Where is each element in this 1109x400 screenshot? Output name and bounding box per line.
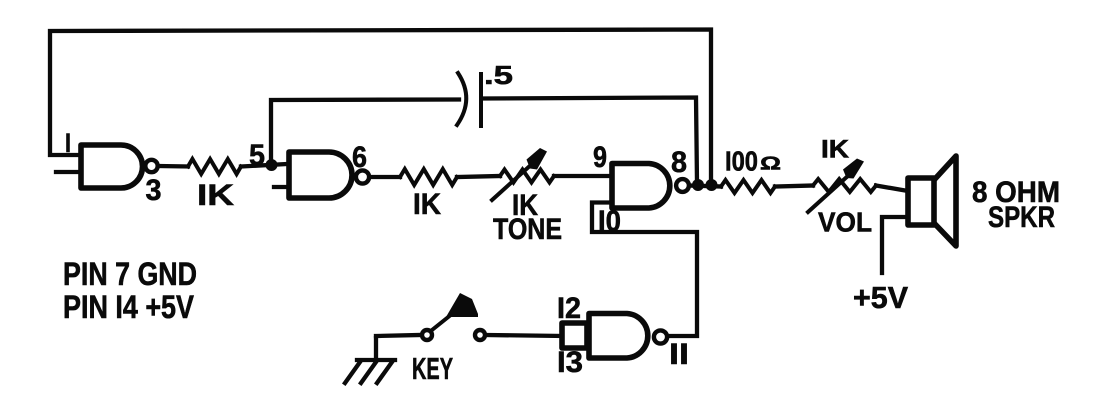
wire: R4 to R5: [775, 186, 813, 187]
gate U1a (pins 1,2,3) body: [81, 145, 143, 188]
switch S1 knob arrow: [446, 293, 478, 317]
potentiometer R5 1K VOL: [813, 179, 876, 192]
gate U1c (pins 9,10,8) body: [612, 164, 670, 209]
gate U1a output bubble: [145, 160, 157, 172]
node: pin 5 junction dot: [266, 159, 278, 171]
svg-text:IK: IK: [821, 136, 849, 164]
svg-text:5: 5: [249, 139, 265, 172]
svg-text:6: 6: [352, 141, 367, 174]
wire: U1b output to R2: [370, 175, 400, 179]
wire: top feedback rail from pin8 node to pin1: [50, 30, 711, 184]
wire: U1a output to R1: [159, 164, 188, 169]
wire: R3 to U1c input pin 9: [554, 174, 610, 178]
wire: capacitor rail from pin8 node to pin5: [482, 98, 697, 184]
svg-text:I3: I3: [557, 346, 583, 379]
pin 4 input stub: [274, 185, 289, 189]
wire: R1 to node 5 and U1b input: [241, 164, 287, 167]
svg-text:.5: .5: [484, 60, 513, 90]
pin 2 input stub: [56, 170, 81, 174]
potentiometer R5 wiper arrow: [808, 175, 849, 212]
capacitor C1 straight plate: [479, 74, 483, 126]
svg-text:IK: IK: [413, 188, 441, 221]
svg-text:II: II: [669, 338, 689, 371]
svg-text:VOL: VOL: [818, 207, 872, 238]
resistor R1 1K: [188, 159, 241, 174]
svg-text:PIN 7 GND: PIN 7 GND: [63, 256, 197, 292]
svg-text:TONE: TONE: [493, 213, 562, 246]
node: junction dot under capacitor rail: [692, 179, 704, 191]
wire: U1c output to node 8: [690, 186, 721, 187]
gate U1d input tie box (pins 12,13): [562, 323, 587, 348]
svg-text:9: 9: [593, 141, 607, 174]
wire: ground to key switch: [376, 335, 420, 336]
wire: R5 to speaker: [876, 186, 908, 192]
wire: R2 to R3: [457, 176, 500, 177]
svg-text:8: 8: [671, 146, 687, 179]
wire: switch to U1d input: [487, 335, 562, 336]
potentiometer R3 1K TONE: [500, 170, 554, 183]
svg-text:PIN I4 +5V: PIN I4 +5V: [63, 289, 195, 325]
svg-text:IK: IK: [197, 179, 234, 212]
svg-text:I2: I2: [557, 292, 581, 325]
gate U1c output bubble: [676, 179, 689, 192]
gate U1d (pins 12,13,11) body: [589, 314, 648, 359]
svg-text:Ω: Ω: [760, 154, 781, 174]
svg-text:SPKR: SPKR: [988, 201, 1055, 234]
svg-text:I: I: [65, 128, 71, 158]
node: junction dot under top rail: [706, 179, 718, 191]
speaker LS1 frame: [908, 178, 934, 225]
resistor R2 1K: [400, 169, 457, 185]
speaker LS1 cone: [934, 156, 956, 246]
wire: pin 10 to U1d output pin 11: [592, 203, 697, 337]
svg-text:+5V: +5V: [853, 280, 908, 315]
wire: capacitor rail left segment: [271, 100, 459, 164]
svg-text:3: 3: [146, 174, 162, 207]
svg-text:KEY: KEY: [412, 351, 453, 386]
switch S1 KEY right contact: [475, 330, 485, 340]
resistor R4 100 ohm: [721, 180, 775, 193]
gate U1b output bubble: [356, 170, 369, 183]
switch S1 lever: [432, 306, 462, 330]
switch S1 KEY left contact: [422, 330, 432, 340]
gate U1d output bubble: [654, 330, 667, 343]
gate U1b (pins 4,5,6) body: [289, 152, 352, 198]
svg-text:I00: I00: [725, 146, 758, 177]
potentiometer R3 wiper arrow: [492, 164, 532, 200]
wire: +5V to speaker: [882, 217, 908, 273]
capacitor C1 .5uF curved plate: [457, 73, 466, 125]
ground symbol: [345, 338, 395, 383]
